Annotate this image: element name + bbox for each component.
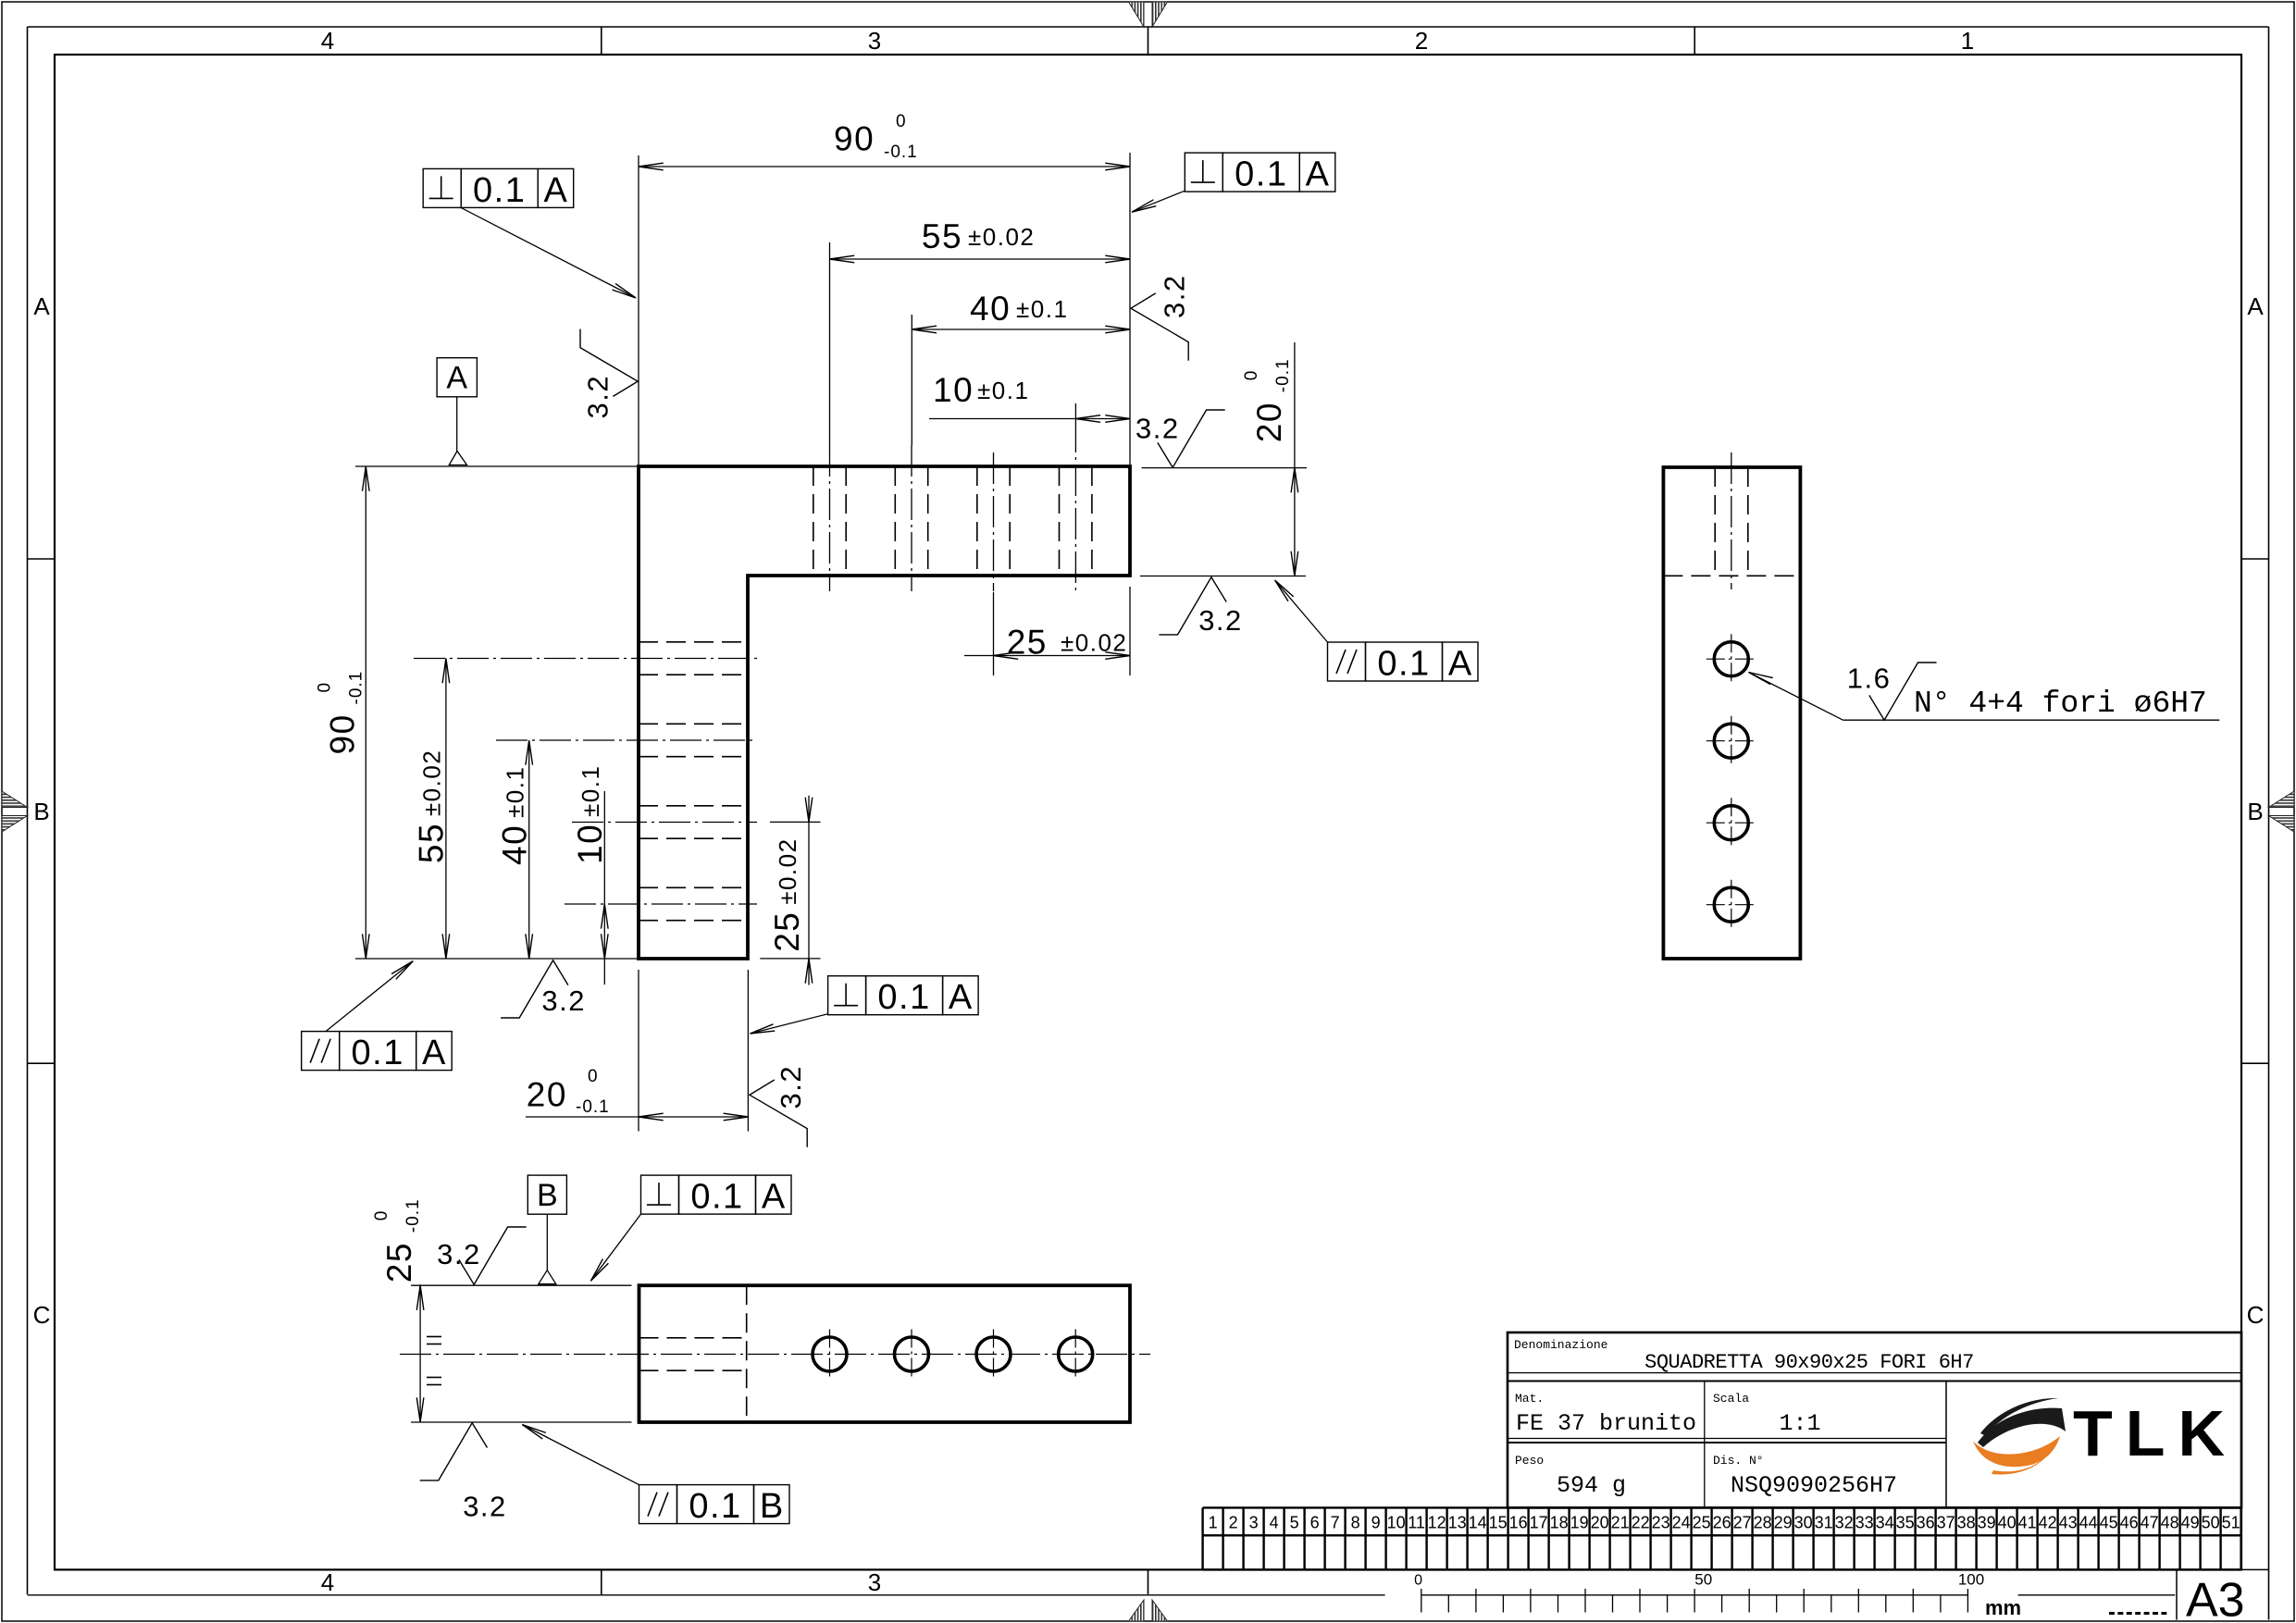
svg-text:29: 29 bbox=[1774, 1514, 1793, 1532]
svg-text:3.2: 3.2 bbox=[437, 1238, 481, 1270]
svg-text:0: 0 bbox=[896, 112, 907, 131]
svg-text:±0.02: ±0.02 bbox=[1061, 628, 1127, 656]
svg-text:50: 50 bbox=[1694, 1571, 1712, 1589]
svg-text:3.2: 3.2 bbox=[582, 375, 614, 419]
svg-text:55: 55 bbox=[413, 823, 451, 863]
svg-text:0.1: 0.1 bbox=[1377, 645, 1430, 684]
svg-text:±0.1: ±0.1 bbox=[1016, 295, 1068, 323]
svg-text:46: 46 bbox=[2120, 1514, 2139, 1532]
svg-text:36: 36 bbox=[1917, 1514, 1935, 1532]
svg-text:17: 17 bbox=[1530, 1514, 1548, 1532]
svg-text:14: 14 bbox=[1469, 1514, 1487, 1532]
svg-text:20: 20 bbox=[527, 1076, 567, 1114]
svg-text:0.1: 0.1 bbox=[1235, 155, 1287, 194]
svg-text:22: 22 bbox=[1632, 1514, 1650, 1532]
svg-text:Denominazione: Denominazione bbox=[1514, 1338, 1607, 1352]
svg-text:0.1: 0.1 bbox=[690, 1178, 743, 1217]
svg-text:2: 2 bbox=[1229, 1514, 1238, 1532]
svg-text:42: 42 bbox=[2039, 1514, 2057, 1532]
svg-text:28: 28 bbox=[1754, 1514, 1772, 1532]
svg-text:26: 26 bbox=[1713, 1514, 1731, 1532]
svg-text:A: A bbox=[2247, 292, 2264, 320]
svg-text:3.2: 3.2 bbox=[541, 985, 586, 1017]
svg-text:Dis. N°: Dis. N° bbox=[1713, 1454, 1764, 1468]
svg-text:44: 44 bbox=[2079, 1514, 2098, 1532]
svg-text:A: A bbox=[762, 1178, 786, 1217]
svg-text:1: 1 bbox=[1961, 27, 1974, 55]
svg-text:3: 3 bbox=[868, 27, 881, 55]
svg-text:16: 16 bbox=[1509, 1514, 1528, 1532]
svg-text:3.2: 3.2 bbox=[1136, 413, 1180, 445]
svg-text:35: 35 bbox=[1896, 1514, 1915, 1532]
svg-text:±0.02: ±0.02 bbox=[774, 837, 801, 904]
svg-text:21: 21 bbox=[1611, 1514, 1630, 1532]
svg-text:20: 20 bbox=[1250, 402, 1288, 442]
svg-text:A: A bbox=[1306, 155, 1330, 194]
svg-text:SQUADRETTA 90x90x25 FORI 6H7: SQUADRETTA 90x90x25 FORI 6H7 bbox=[1644, 1351, 1974, 1374]
svg-text:NSQ9090256H7: NSQ9090256H7 bbox=[1731, 1472, 1897, 1499]
svg-text:A: A bbox=[1448, 645, 1472, 684]
svg-text:49: 49 bbox=[2181, 1514, 2200, 1532]
svg-text:10: 10 bbox=[1387, 1514, 1406, 1532]
svg-text:1: 1 bbox=[1209, 1514, 1218, 1532]
svg-text:0: 0 bbox=[588, 1067, 599, 1086]
svg-text:8: 8 bbox=[1351, 1514, 1360, 1532]
svg-text:25: 25 bbox=[1007, 623, 1048, 661]
svg-text:C: C bbox=[33, 1301, 51, 1329]
svg-text:31: 31 bbox=[1815, 1514, 1833, 1532]
svg-text:±0.1: ±0.1 bbox=[577, 765, 604, 817]
svg-text:-0.1: -0.1 bbox=[884, 142, 918, 162]
svg-text:0.1: 0.1 bbox=[689, 1487, 741, 1526]
svg-text:4: 4 bbox=[321, 1568, 334, 1596]
svg-text:32: 32 bbox=[1835, 1514, 1854, 1532]
svg-text:24: 24 bbox=[1672, 1514, 1691, 1532]
svg-text:FE 37 brunito: FE 37 brunito bbox=[1516, 1410, 1696, 1437]
svg-text:B: B bbox=[537, 1178, 558, 1213]
svg-text:15: 15 bbox=[1489, 1514, 1508, 1532]
svg-text:Mat.: Mat. bbox=[1515, 1392, 1544, 1406]
svg-text:30: 30 bbox=[1794, 1514, 1813, 1532]
svg-text:B: B bbox=[33, 798, 49, 825]
svg-text:A: A bbox=[544, 171, 568, 210]
svg-text:3.2: 3.2 bbox=[1159, 274, 1191, 318]
svg-text:±0.02: ±0.02 bbox=[968, 223, 1035, 251]
svg-text:4: 4 bbox=[1270, 1514, 1279, 1532]
svg-text:0.1: 0.1 bbox=[473, 171, 526, 210]
svg-text:3: 3 bbox=[868, 1568, 881, 1596]
svg-text:27: 27 bbox=[1733, 1514, 1752, 1532]
svg-text:40: 40 bbox=[970, 290, 1011, 328]
svg-text:13: 13 bbox=[1448, 1514, 1467, 1532]
svg-text:3.2: 3.2 bbox=[1198, 604, 1243, 637]
svg-text:10: 10 bbox=[933, 371, 974, 409]
svg-text:mm: mm bbox=[1985, 1596, 2021, 1619]
svg-text:-0.1: -0.1 bbox=[346, 671, 366, 705]
svg-text:A3: A3 bbox=[2186, 1573, 2245, 1623]
svg-text:A: A bbox=[949, 978, 973, 1017]
svg-text:3.2: 3.2 bbox=[775, 1065, 807, 1109]
svg-text:40: 40 bbox=[1998, 1514, 2017, 1532]
svg-text:0: 0 bbox=[1414, 1573, 1422, 1589]
svg-text:1.6: 1.6 bbox=[1847, 663, 1892, 695]
svg-text:A: A bbox=[33, 292, 50, 320]
svg-text:-0.1: -0.1 bbox=[576, 1097, 610, 1117]
svg-text:100: 100 bbox=[1958, 1571, 1984, 1589]
svg-text:±0.1: ±0.1 bbox=[502, 766, 529, 818]
svg-text:25: 25 bbox=[768, 911, 806, 952]
svg-text:0: 0 bbox=[1242, 370, 1261, 381]
svg-text:C: C bbox=[2247, 1301, 2265, 1329]
svg-text:11: 11 bbox=[1408, 1514, 1425, 1532]
svg-text:2: 2 bbox=[1415, 27, 1428, 55]
svg-text:6: 6 bbox=[1310, 1514, 1320, 1532]
svg-text:55: 55 bbox=[922, 217, 962, 255]
svg-text:12: 12 bbox=[1428, 1514, 1446, 1532]
svg-text:37: 37 bbox=[1937, 1514, 1955, 1532]
svg-text:10: 10 bbox=[571, 824, 609, 864]
svg-text:90: 90 bbox=[323, 713, 361, 754]
svg-text:45: 45 bbox=[2100, 1514, 2118, 1532]
svg-text:38: 38 bbox=[1957, 1514, 1976, 1532]
svg-text:41: 41 bbox=[2018, 1514, 2037, 1532]
svg-text:-0.1: -0.1 bbox=[1273, 358, 1293, 392]
svg-text:33: 33 bbox=[1855, 1514, 1874, 1532]
svg-text:0: 0 bbox=[315, 682, 334, 693]
svg-text:0: 0 bbox=[372, 1210, 391, 1221]
svg-text:TLK: TLK bbox=[2073, 1397, 2238, 1469]
svg-text:23: 23 bbox=[1652, 1514, 1670, 1532]
svg-text:50: 50 bbox=[2202, 1514, 2220, 1532]
svg-text:594 g: 594 g bbox=[1557, 1472, 1626, 1499]
svg-text:0.1: 0.1 bbox=[877, 978, 930, 1017]
svg-text:18: 18 bbox=[1550, 1514, 1569, 1532]
svg-text:±0.02: ±0.02 bbox=[418, 750, 446, 816]
svg-text:47: 47 bbox=[2141, 1514, 2159, 1532]
svg-text:B: B bbox=[760, 1487, 783, 1526]
svg-text:40: 40 bbox=[496, 824, 534, 865]
svg-text:7: 7 bbox=[1331, 1514, 1340, 1532]
svg-text:-0.1: -0.1 bbox=[403, 1198, 423, 1233]
svg-text:1:1: 1:1 bbox=[1779, 1410, 1820, 1437]
svg-text:9: 9 bbox=[1371, 1514, 1381, 1532]
svg-text:34: 34 bbox=[1876, 1514, 1894, 1532]
svg-text:4: 4 bbox=[321, 27, 334, 55]
svg-text:48: 48 bbox=[2161, 1514, 2179, 1532]
svg-text:20: 20 bbox=[1591, 1514, 1609, 1532]
svg-text:39: 39 bbox=[1978, 1514, 1996, 1532]
svg-text:B: B bbox=[2247, 798, 2263, 825]
svg-text:N° 4+4 fori ø6H7: N° 4+4 fori ø6H7 bbox=[1914, 687, 2207, 721]
svg-text:Scala: Scala bbox=[1713, 1392, 1749, 1406]
svg-text:A: A bbox=[446, 361, 467, 396]
svg-text:±0.1: ±0.1 bbox=[977, 377, 1029, 404]
svg-text:25: 25 bbox=[1693, 1514, 1711, 1532]
svg-text:19: 19 bbox=[1570, 1514, 1589, 1532]
svg-text:3.2: 3.2 bbox=[463, 1491, 507, 1523]
svg-text:Peso: Peso bbox=[1515, 1454, 1544, 1468]
svg-text:0.1: 0.1 bbox=[352, 1034, 404, 1072]
svg-text:A: A bbox=[422, 1034, 446, 1072]
svg-text:51: 51 bbox=[2222, 1514, 2240, 1532]
svg-text:25: 25 bbox=[380, 1242, 418, 1282]
svg-text:90: 90 bbox=[834, 120, 875, 158]
svg-text:43: 43 bbox=[2059, 1514, 2078, 1532]
svg-text:5: 5 bbox=[1290, 1514, 1299, 1532]
svg-text:3: 3 bbox=[1249, 1514, 1259, 1532]
